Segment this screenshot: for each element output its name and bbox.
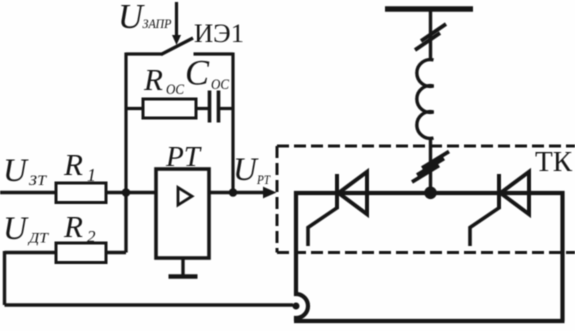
svg-text:ЗАПР: ЗАПР <box>143 16 172 31</box>
wire top-right of feedback box <box>194 52 234 55</box>
svg-text:U: U <box>118 0 145 36</box>
wire arrow from U_ZAPR down to switch <box>175 2 178 37</box>
wire top-left of feedback box <box>126 52 163 55</box>
wire PT output <box>209 191 264 194</box>
thyristor VS1 triangle <box>339 172 368 214</box>
svg-text:R: R <box>63 147 83 182</box>
svg-text:U: U <box>3 153 29 189</box>
TK loop bottom edge <box>294 319 565 323</box>
wire left rail of feedback <box>124 53 127 193</box>
wire vertical up to node <box>124 193 127 253</box>
resistor R_OC <box>126 107 143 110</box>
wire U_DT left drop <box>3 251 6 305</box>
wire bottom feedback run <box>5 303 294 306</box>
label U_DT <box>3 211 50 247</box>
inductor <box>417 60 434 139</box>
wire R2 to node <box>106 251 126 254</box>
arrow into TK <box>263 187 277 199</box>
svg-text:ИЭ1: ИЭ1 <box>194 19 244 48</box>
svg-text:ОС: ОС <box>211 77 230 93</box>
op-amp PT box <box>156 169 209 258</box>
dashed box TK middle <box>277 251 575 254</box>
resistor R1 <box>56 183 106 203</box>
node summing junction <box>122 188 131 197</box>
svg-text:R: R <box>143 62 163 97</box>
label R_OC <box>143 62 185 98</box>
wire right rail of feedback <box>231 53 234 193</box>
thyristor VS2 cathode bar <box>497 174 501 209</box>
sensor dot <box>293 303 300 310</box>
label U_ZAPR <box>118 0 172 36</box>
svg-text:U: U <box>233 152 259 188</box>
label C_OC <box>185 53 230 94</box>
thyristor VS1 cathode bar <box>335 174 339 209</box>
svg-text:РТ: РТ <box>256 173 271 187</box>
label U_PT <box>233 152 271 188</box>
dashed box TK left <box>276 146 279 253</box>
svg-text:R: R <box>63 209 83 244</box>
wire U_DT lead to R2 <box>5 251 57 254</box>
switch IE1 blade <box>161 38 193 55</box>
break symbol lower <box>422 152 449 169</box>
label U_ZT <box>3 153 48 189</box>
resistor R2 <box>56 243 106 263</box>
svg-text:C: C <box>185 53 210 93</box>
label R_1 <box>63 147 96 185</box>
node feeder junction <box>424 187 437 200</box>
capacitor C_OC <box>208 91 212 123</box>
wire feeder lower <box>429 138 432 193</box>
svg-text:ЗТ: ЗТ <box>29 173 48 189</box>
power bus bar <box>385 6 473 12</box>
TK loop right edge <box>560 191 564 321</box>
ground <box>181 258 184 276</box>
thyristor VS1 gate <box>308 208 338 247</box>
TK loop left edge with sensor arc <box>296 191 308 321</box>
svg-text:U: U <box>3 211 29 247</box>
op-amp triangle symbol <box>178 188 192 206</box>
break symbol upper <box>421 24 446 41</box>
TK loop top wire <box>294 191 565 195</box>
thyristor VS2 triangle <box>501 172 530 214</box>
wire U_ZT input <box>0 191 56 194</box>
wire feeder upper <box>429 9 432 59</box>
wire R1 to PT <box>106 191 156 194</box>
svg-text:ОС: ОС <box>166 82 185 98</box>
label R_2 <box>63 209 96 246</box>
thyristor VS2 gate <box>470 208 500 247</box>
dashed box TK top <box>277 145 575 148</box>
svg-text:ТК: ТК <box>535 146 573 178</box>
node output junction <box>229 188 238 197</box>
svg-text:ДТ: ДТ <box>27 231 50 247</box>
